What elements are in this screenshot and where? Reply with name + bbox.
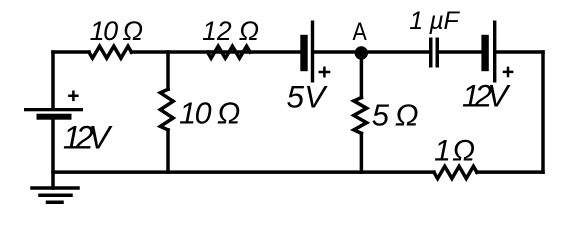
- svg-text:1 µF: 1 µF: [409, 7, 460, 35]
- svg-text:12 Ω: 12 Ω: [202, 16, 259, 46]
- svg-text:5V: 5V: [287, 78, 329, 114]
- svg-text:12V: 12V: [462, 77, 511, 113]
- svg-text:A: A: [353, 18, 368, 46]
- svg-text:1 Ω: 1 Ω: [434, 135, 474, 168]
- svg-text:10 Ω: 10 Ω: [90, 16, 143, 46]
- svg-text:12V: 12V: [63, 119, 113, 155]
- svg-text:10 Ω: 10 Ω: [179, 97, 240, 131]
- svg-text:5 Ω: 5 Ω: [372, 97, 418, 132]
